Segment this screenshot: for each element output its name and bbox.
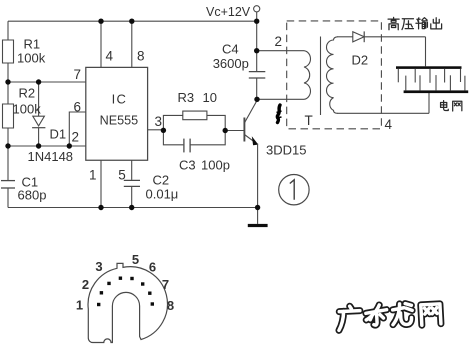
svg-text:R3: R3 [178, 90, 195, 105]
svg-text:2: 2 [82, 277, 89, 292]
svg-text:D2: D2 [352, 53, 369, 68]
svg-text:10: 10 [203, 90, 217, 105]
svg-text:IC: IC [112, 91, 128, 106]
svg-text:5: 5 [118, 167, 126, 182]
svg-text:6: 6 [149, 260, 156, 275]
svg-text:100p: 100p [201, 158, 230, 173]
svg-text:C3: C3 [179, 158, 196, 173]
svg-text:0.01μ: 0.01μ [146, 186, 179, 201]
svg-text:C4: C4 [222, 42, 239, 57]
svg-text:5: 5 [132, 252, 139, 267]
svg-text:1: 1 [89, 167, 97, 182]
svg-text:NE555: NE555 [100, 114, 139, 128]
svg-text:D1: D1 [50, 127, 67, 142]
svg-text:R2: R2 [19, 86, 36, 101]
svg-text:1: 1 [76, 298, 83, 313]
svg-text:3DD15: 3DD15 [266, 143, 306, 158]
svg-text:2: 2 [72, 130, 80, 145]
svg-text:7: 7 [162, 277, 169, 292]
svg-text:100k: 100k [13, 102, 42, 117]
svg-text:3600p: 3600p [213, 56, 249, 71]
svg-text:3: 3 [155, 114, 163, 129]
svg-text:Vc+12V: Vc+12V [206, 5, 251, 19]
svg-text:C2: C2 [153, 173, 170, 188]
svg-text:1N4148: 1N4148 [28, 149, 74, 164]
svg-text:R1: R1 [24, 37, 41, 52]
svg-text:6: 6 [74, 100, 82, 115]
svg-text:T: T [305, 113, 313, 128]
svg-text:4: 4 [106, 48, 114, 63]
svg-text:100k: 100k [17, 51, 46, 66]
svg-text:4: 4 [385, 117, 393, 132]
svg-text:680p: 680p [18, 188, 47, 203]
svg-text:7: 7 [74, 67, 82, 82]
svg-text:8: 8 [137, 48, 145, 63]
svg-text:8: 8 [167, 298, 174, 313]
svg-text:3: 3 [95, 259, 102, 274]
svg-text:2: 2 [275, 34, 283, 49]
